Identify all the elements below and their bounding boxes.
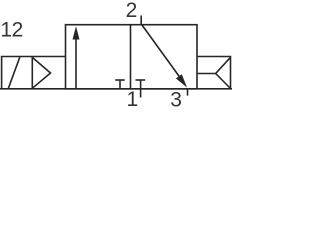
svg-text:12: 12 bbox=[0, 18, 22, 41]
return triangle bbox=[216, 57, 231, 88]
solenoid cell divider bbox=[31, 57, 33, 89]
pilot return line bbox=[197, 73, 216, 75]
air spring return box bbox=[197, 57, 231, 89]
solenoid coil diagonal bbox=[8, 57, 19, 88]
svg-text:3: 3 bbox=[170, 88, 182, 111]
flow arrow 2 to 3 (right square) bbox=[142, 25, 187, 88]
blocked port T / port 1 stub bbox=[136, 80, 146, 98]
port 2 stub bbox=[140, 16, 142, 25]
wire baseline net 1 bbox=[0, 88, 232, 90]
valve body outline bbox=[66, 25, 198, 89]
flow arrow 1 to 2 (left square) bbox=[73, 26, 80, 89]
pilot triangle bbox=[32, 57, 50, 88]
blocked port T (left square) bbox=[115, 80, 125, 89]
svg-text:1: 1 bbox=[126, 88, 138, 111]
solenoid actuator box Y1 bbox=[2, 57, 66, 89]
port 3 stub bbox=[187, 89, 189, 96]
svg-text:2: 2 bbox=[126, 0, 138, 22]
valve position divider bbox=[130, 25, 132, 89]
